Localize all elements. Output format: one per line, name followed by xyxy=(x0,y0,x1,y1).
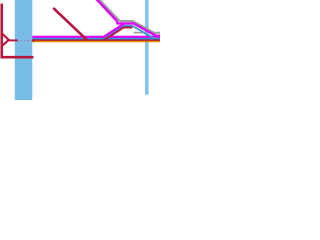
red branch: up from band to short terminus xyxy=(103,28,132,41)
crimson route: triangle loop xyxy=(2,34,9,46)
azure branch: up from band, horizontal, descent back to band xyxy=(105,26,155,39)
magenta branch: down-left to band xyxy=(104,23,125,37)
stream (right, narrow) xyxy=(145,0,149,95)
ferry-band junction blob xyxy=(32,39,34,41)
crimson route: apex to river xyxy=(9,39,18,41)
magenta route: junction horizontal, elbow, descent merge to band xyxy=(117,23,161,35)
magenta route: diagonal from top to junction xyxy=(96,0,117,21)
river (left, wide) xyxy=(15,0,33,100)
red diagonal route (top middle) xyxy=(53,8,87,40)
ferry dashed red line over river xyxy=(17,40,33,42)
gray route: diagonal from top, elbow right, descent to right edge xyxy=(98,0,160,33)
band: red route line xyxy=(32,40,160,42)
gray stub xyxy=(134,32,147,34)
magenta junction connector xyxy=(116,21,118,23)
crimson route: vertical + horizontal elbow xyxy=(2,4,34,58)
band: orange route line xyxy=(32,41,160,43)
band: purple route line xyxy=(32,39,160,41)
band: magenta route line xyxy=(32,36,160,38)
band: azure route line xyxy=(32,37,160,39)
